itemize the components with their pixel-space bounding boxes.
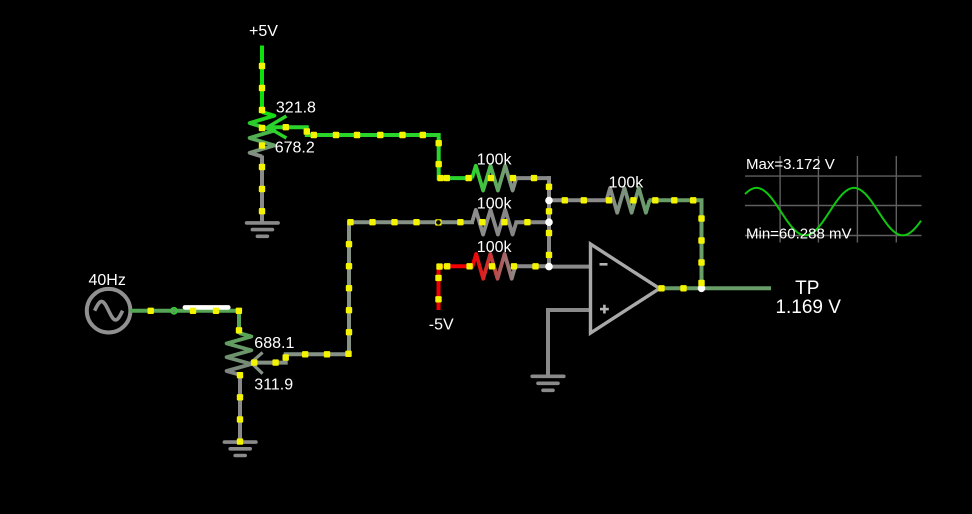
svg-text:40Hz: 40Hz <box>89 272 126 289</box>
svg-text:100k: 100k <box>477 239 513 256</box>
svg-text:1.169 V: 1.169 V <box>775 297 841 318</box>
svg-text:Min=60.288 mV: Min=60.288 mV <box>746 225 851 242</box>
svg-text:100k: 100k <box>609 175 645 192</box>
svg-text:-5V: -5V <box>429 317 454 334</box>
svg-text:TP: TP <box>795 278 819 299</box>
svg-text:100k: 100k <box>477 196 513 213</box>
svg-text:Max=3.172 V: Max=3.172 V <box>746 156 835 173</box>
svg-text:688.1: 688.1 <box>254 335 294 352</box>
svg-text:100k: 100k <box>477 152 513 169</box>
svg-text:+5V: +5V <box>249 23 278 40</box>
svg-text:311.9: 311.9 <box>254 376 293 393</box>
svg-text:678.2: 678.2 <box>275 139 315 156</box>
svg-text:321.8: 321.8 <box>276 100 316 117</box>
